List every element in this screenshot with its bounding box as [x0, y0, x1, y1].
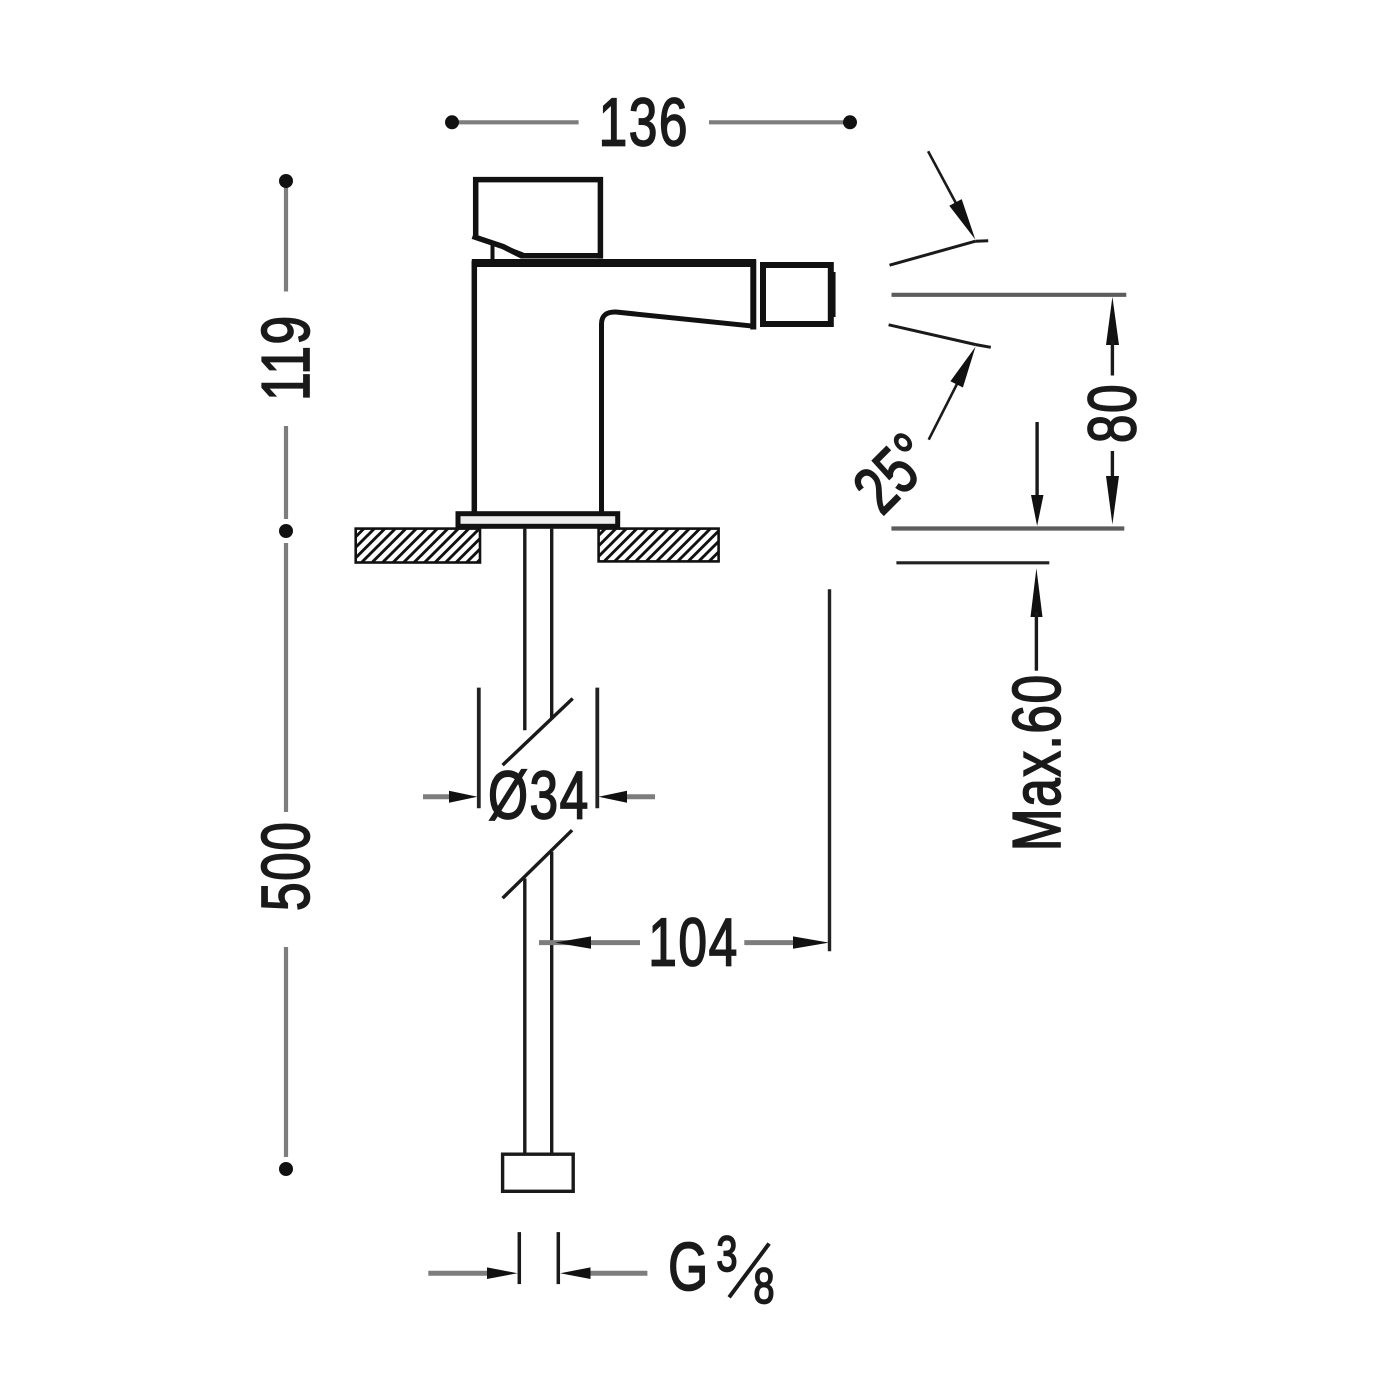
angle upper V long line	[890, 241, 976, 265]
svg-text:136: 136	[599, 85, 689, 160]
supply pipe right line upper	[550, 529, 553, 720]
angle upper arrowhead	[949, 199, 975, 239]
left dim line segment 2	[284, 426, 288, 519]
faucet body left edge	[472, 261, 478, 513]
dim 80 bottom arrow	[1106, 476, 1119, 525]
dim 80 label	[1075, 383, 1150, 443]
mounting reference line	[891, 526, 1124, 530]
angle lower arrow leader	[929, 381, 959, 440]
dim 104 right arrow	[793, 936, 829, 948]
pipe break slash lower	[503, 830, 572, 898]
faucet handle inner diagonal	[494, 244, 523, 255]
dim 80 top arrow	[1106, 297, 1119, 345]
dim O34 left arrow	[423, 794, 455, 799]
faucet body top bar	[472, 259, 756, 267]
dim 80 shaft upper	[1111, 340, 1114, 376]
dim 136 line left segment	[452, 120, 579, 124]
dim 136 left dot	[445, 115, 459, 129]
angle lower arrowhead	[950, 347, 975, 388]
dim 104 line left	[539, 940, 640, 945]
svg-text:8: 8	[753, 1259, 774, 1314]
dim O34 right arrow	[622, 794, 655, 799]
dim 136 label	[599, 85, 689, 160]
dim G38 label G	[668, 1229, 710, 1304]
dim G38 left arrow	[428, 1271, 492, 1276]
spout aerator right inner line	[832, 272, 836, 317]
left dim line segment 3	[284, 543, 288, 812]
dim 80 shaft lower	[1111, 451, 1114, 481]
max depth line	[896, 561, 1049, 564]
svg-text:Ø34: Ø34	[488, 758, 590, 833]
svg-text:104: 104	[648, 905, 738, 980]
counter hatch left	[356, 529, 480, 563]
svg-text:80: 80	[1075, 383, 1150, 443]
dim 104 right extension line	[828, 589, 831, 951]
dim max60 label	[999, 673, 1074, 851]
dim 104 left arrow	[555, 936, 591, 948]
dim G38 fraction slash	[729, 1244, 769, 1298]
left dim line segment 1	[284, 181, 288, 292]
supply pipe left line lower	[523, 879, 526, 1156]
dim G38 label numerator 3	[716, 1227, 737, 1282]
angle lower V tick	[976, 345, 991, 348]
dim max60 down arrowhead	[1031, 495, 1044, 526]
svg-text:3: 3	[716, 1227, 737, 1282]
mounting flange	[458, 514, 618, 527]
spout aerator rect	[763, 265, 831, 324]
dim G38 left tick	[518, 1232, 522, 1284]
left dim line segment 4	[284, 947, 288, 1157]
left dim middle dot	[279, 524, 293, 538]
faucet spout right edge	[750, 260, 756, 330]
dim max60 up arrowhead	[1031, 568, 1043, 617]
faucet handle stub	[491, 244, 495, 263]
supply pipe right line lower	[550, 852, 553, 1155]
dim 500 label	[248, 821, 323, 911]
svg-text:119: 119	[248, 314, 323, 401]
dim 136 line right segment	[709, 120, 850, 124]
faucet spout underside	[602, 312, 756, 514]
dim O34 right extension line	[595, 688, 599, 809]
dim max60 down arrow shaft	[1035, 422, 1038, 500]
left dim bottom dot	[279, 1162, 293, 1176]
svg-text:Max.60: Max.60	[999, 673, 1074, 851]
angle upper V tick	[975, 239, 988, 242]
supply pipe left line upper	[523, 529, 526, 731]
dim 104 label	[648, 905, 738, 980]
left dim top dot	[279, 174, 293, 188]
dim G38 label denominator 8	[753, 1259, 774, 1314]
pipe break slash upper	[503, 699, 573, 766]
dim G38 right tick	[557, 1232, 561, 1284]
dim 104 line right	[744, 940, 800, 945]
svg-text:G: G	[668, 1229, 710, 1304]
dim O34 label	[488, 758, 590, 833]
dim 25 label	[839, 419, 947, 527]
dim max60 up arrow shaft	[1035, 612, 1038, 671]
counter hatch right	[599, 529, 719, 562]
spout reference line	[892, 293, 1127, 297]
pipe end connector	[503, 1154, 574, 1191]
dim 119 label	[248, 314, 323, 401]
dim O34 left extension line	[477, 688, 481, 809]
svg-text:500: 500	[248, 821, 323, 911]
angle upper arrow leader	[928, 151, 958, 207]
dim 136 right dot	[843, 115, 857, 129]
dim G38 right arrow	[586, 1271, 647, 1276]
faucet handle outline	[473, 180, 602, 259]
angle lower V long line	[889, 325, 976, 345]
